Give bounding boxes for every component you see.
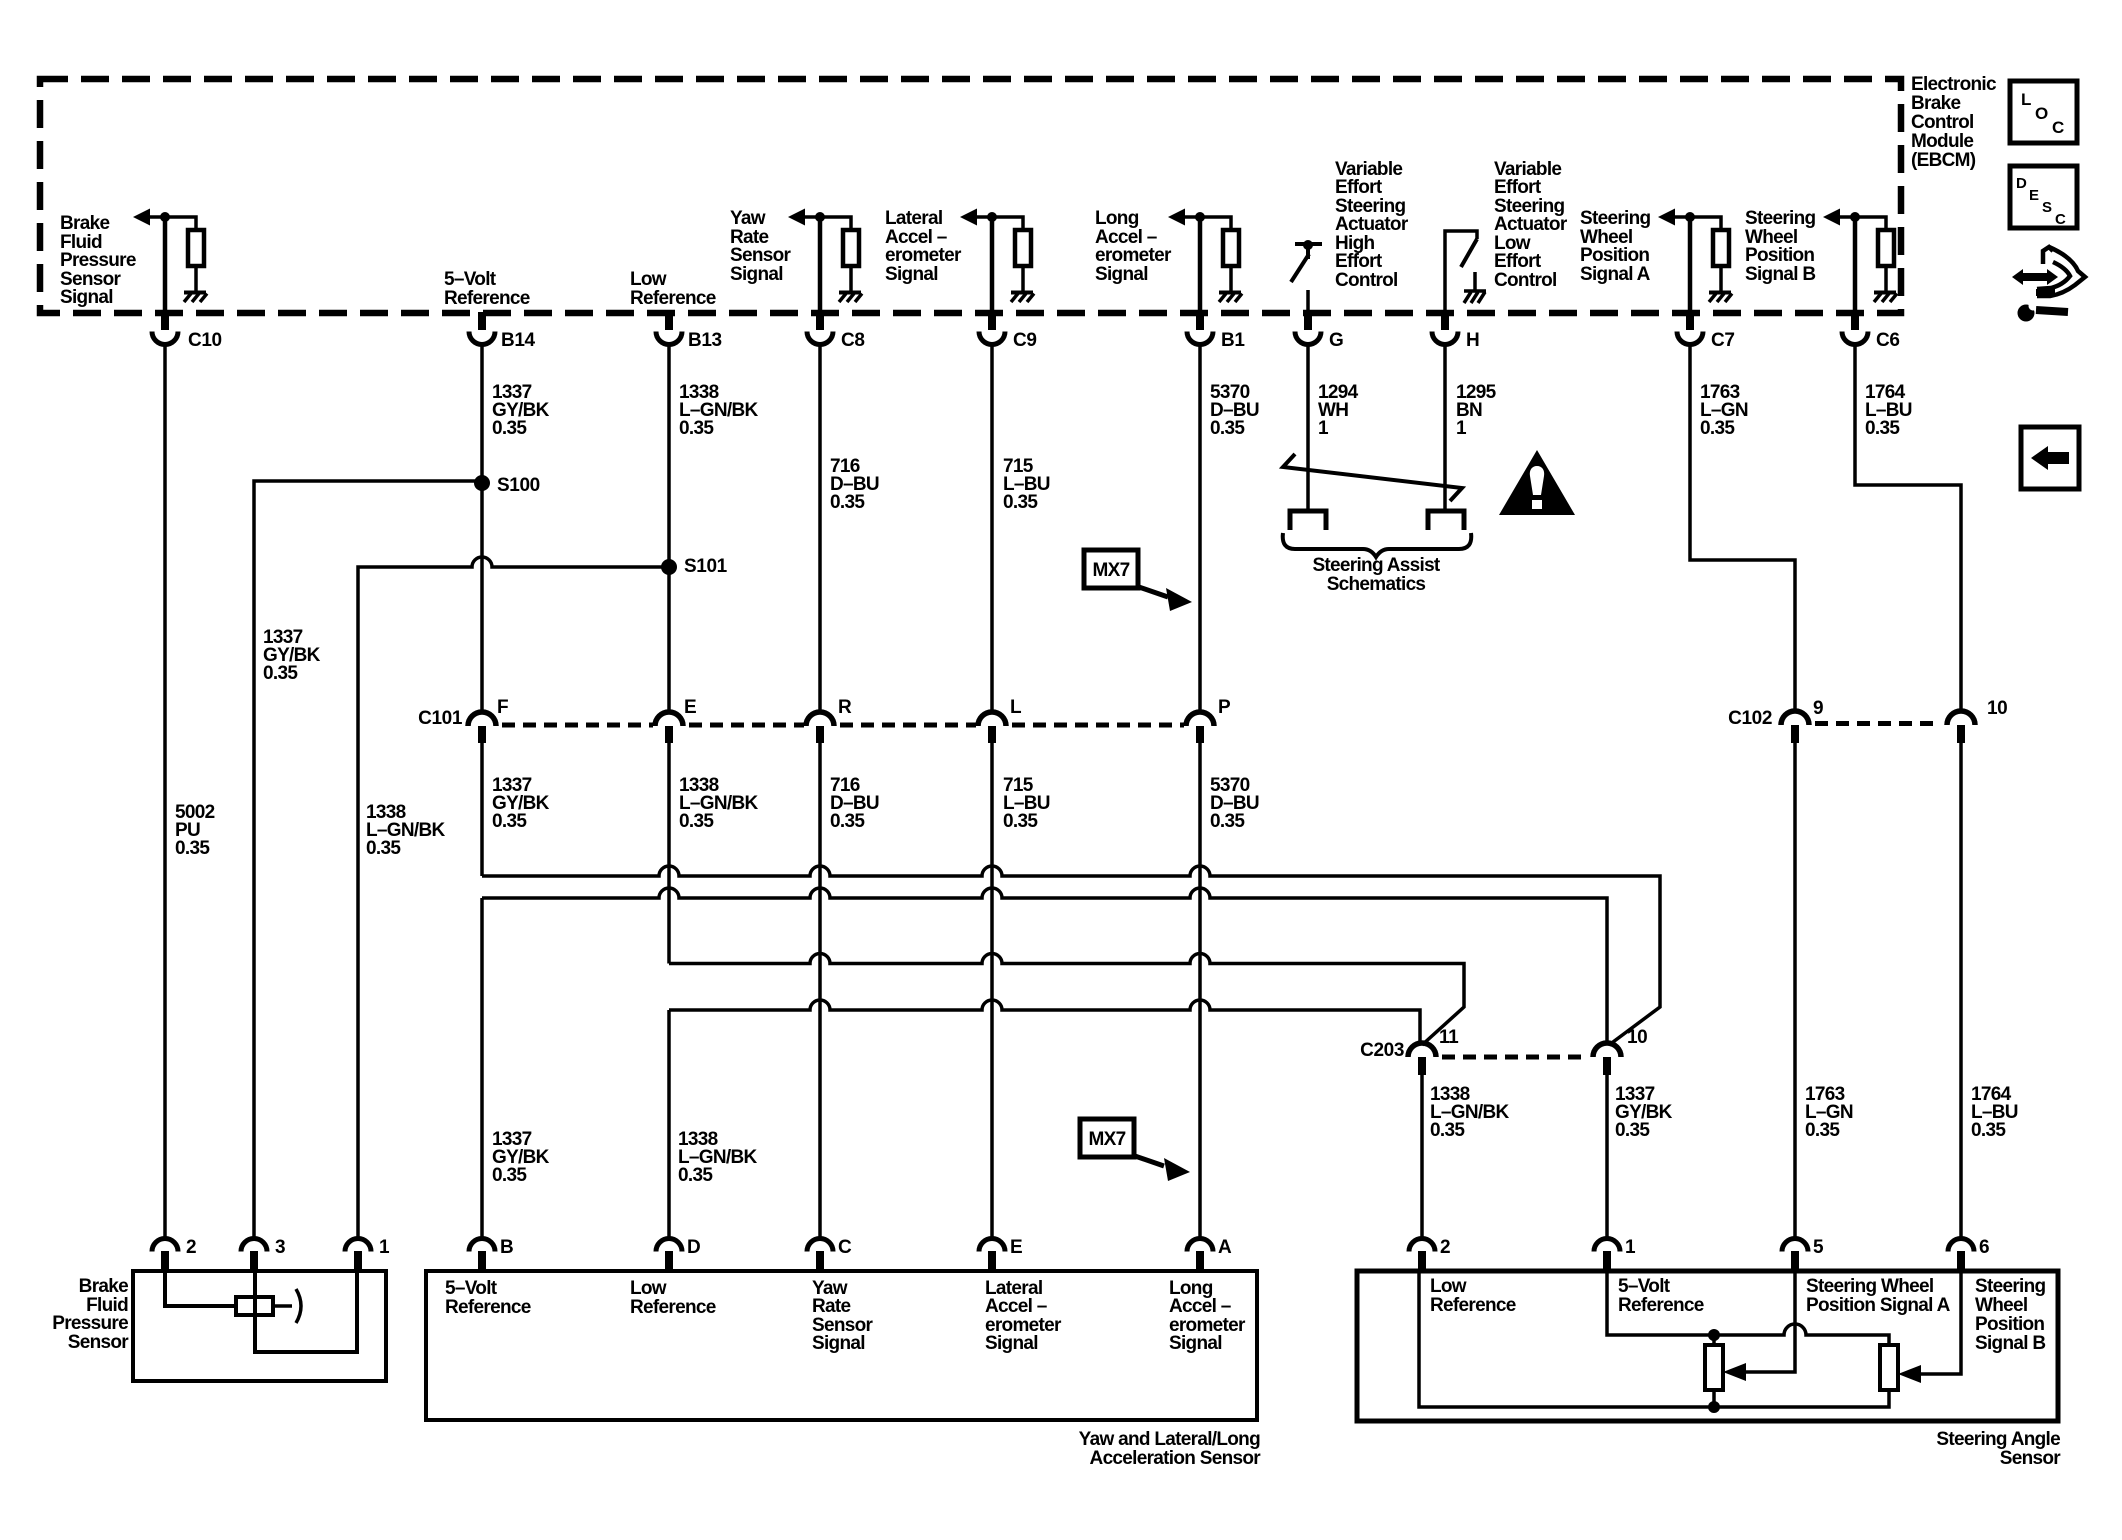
svg-text:0.35: 0.35 [830,811,865,832]
wire 1294 label [1318,382,1359,439]
Low Reference label in steering sensor [1430,1276,1516,1316]
wire 716 label [830,456,879,513]
lateral accelerometer signal circuit (arrow, resistor, ground) [960,209,1034,314]
wire 1337 from C203 pin 10 to steering angle sensor pin 1 [1605,1075,1609,1239]
yaw and lateral/long acceleration sensor box [426,1271,1257,1420]
svg-text:Wheel: Wheel [1975,1295,2027,1316]
svg-text:O: O [2035,104,2048,123]
svg-text:C8: C8 [841,330,865,351]
connector pin H at EBCM [1432,312,1479,351]
connector C101 pin P [1186,697,1231,743]
svg-text:0.35: 0.35 [679,811,714,832]
wire 1764 L-BU from C6 to C102 pin 10 [1855,345,1961,712]
5-Volt Reference label in yaw sensor [445,1278,531,1318]
svg-text:S: S [2042,199,2052,216]
wire 1337 label below C203 pin 10 [1615,1084,1673,1141]
connector C102 pin 10 [1947,698,2007,743]
svg-text:F: F [497,697,508,718]
wire 1338 L-GN/BK from B13 to C101 E [667,345,671,713]
connector pin C9 at EBCM [979,312,1037,351]
svg-text:Signal B: Signal B [1745,264,1815,285]
Low Reference label in yaw sensor [630,1278,716,1318]
potentiometer 1 feed stub [1712,1335,1716,1345]
svg-text:(EBCM): (EBCM) [1911,150,1976,171]
svg-text:0.35: 0.35 [1865,418,1900,439]
svg-text:Rate: Rate [812,1296,851,1317]
steering angle sensor box [1357,1271,2058,1421]
svg-text:0.35: 0.35 [1210,418,1245,439]
svg-text:Reference: Reference [445,1297,531,1318]
svg-text:Position Signal A: Position Signal A [1806,1295,1951,1316]
potentiometer 2 wiper arrow from pin 6 [1898,1271,1961,1383]
low reference bus to both potentiometer bottoms [1419,1271,1889,1407]
svg-text:0.35: 0.35 [1003,492,1038,513]
svg-text:11: 11 [1439,1027,1459,1048]
wire 715 label [1003,456,1050,513]
steering wheel position signal B circuit (arrow, resistor, ground) [1823,209,1897,314]
svg-text:Yaw and Lateral/Long: Yaw and Lateral/Long [1079,1429,1260,1450]
connector C203 pin 11 [1408,1027,1459,1075]
svg-text:S101: S101 [684,556,728,577]
svg-text:3: 3 [275,1237,285,1258]
yaw sensor pin C [807,1237,852,1270]
svg-text:C10: C10 [188,330,222,351]
svg-text:Signal A: Signal A [1580,264,1651,285]
svg-text:5–Volt: 5–Volt [1618,1276,1671,1297]
svg-text:A: A [1218,1237,1232,1258]
warning triangle [1499,450,1575,515]
svg-text:Actuator: Actuator [1494,214,1568,235]
connector pin C6 at EBCM [1842,312,1900,351]
svg-text:Accel –: Accel – [1169,1296,1231,1317]
svg-text:0.35: 0.35 [679,418,714,439]
connector C101 pin R [806,697,852,743]
svg-text:H: H [1466,330,1479,351]
svg-text:C102: C102 [1728,708,1772,729]
wire 5002 PU from C10 to brake sensor pin 2 [163,345,167,1240]
svg-text:1: 1 [1318,418,1329,439]
brake sensor internal wiring with sense resistor [165,1271,357,1352]
bus wire 1337 from yaw sensor pin B to C203 pin 10 (hops E,R,L,P wires) [482,888,1607,1239]
wire 715 from C101 L to yaw sensor pin E [990,743,994,1239]
svg-text:5: 5 [1813,1237,1824,1258]
svg-text:Effort: Effort [1335,251,1383,272]
wire 1337 label below C101 F [492,775,550,832]
svg-text:Module: Module [1911,131,1973,152]
brake fluid pressure sensor signal circuit (arrow, resistor R, ground) [133,209,207,314]
potentiometer 1 bottom stub [1712,1390,1716,1407]
svg-text:5–Volt: 5–Volt [445,1278,498,1299]
svg-text:9: 9 [1813,698,1823,719]
wire 1763 label below C7 [1700,382,1748,439]
svg-text:Electronic: Electronic [1911,74,1997,95]
yaw sensor pin A [1187,1237,1232,1270]
Steering Wheel Position Signal A label [1580,208,1651,285]
svg-text:Steering: Steering [1580,208,1651,229]
svg-text:0.35: 0.35 [1971,1120,2006,1141]
off-page terminal for wire 1294 [1290,511,1326,530]
svg-text:Low: Low [1430,1276,1467,1297]
adjustable-with-wrench legend icon [2012,247,2085,322]
Long Accelerometer Signal label in yaw sensor [1169,1278,1246,1354]
svg-text:10: 10 [1987,698,2007,719]
wire 1337 branch label [263,627,321,684]
wire 5370 from C101 P to yaw sensor pin A [1198,743,1202,1239]
steering angle sensor pin 1 [1594,1237,1636,1270]
svg-text:B13: B13 [688,330,722,351]
potentiometer 1 body [1705,1345,1723,1390]
svg-text:Position: Position [1580,245,1649,266]
svg-text:0.35: 0.35 [175,838,210,859]
svg-text:Sensor: Sensor [2000,1448,2062,1469]
svg-text:Steering Assist: Steering Assist [1312,555,1440,576]
wire 5370 D-BU from B1 to C101 P [1198,345,1202,713]
svg-text:Control: Control [1911,112,1974,133]
Steering Assist Schematics label [1312,555,1440,595]
EBCM module name label [1911,74,1997,171]
junction dot at potentiometer 1 bottom [1708,1401,1720,1413]
svg-text:Sensor: Sensor [68,1332,130,1353]
Brake Fluid Pressure Sensor Signal label [60,213,136,308]
svg-text:Signal: Signal [730,264,783,285]
svg-text:Control: Control [1335,270,1398,291]
wire 716 D-BU from C8 to C101 R [818,345,822,713]
connector C101 pin E [655,697,696,743]
svg-text:erometer: erometer [885,245,962,266]
svg-text:E: E [1010,1237,1022,1258]
wire 1295 BN from H to steering assist [1443,345,1447,511]
yaw sensor pin D [656,1237,700,1270]
svg-text:Low: Low [630,269,667,290]
svg-text:0.35: 0.35 [366,838,401,859]
wire 1338 branch from S101 to brake sensor pin 1 (hops B14 wire) [358,557,669,1239]
wire 1763 from C102 pin 9 to steering angle sensor pin 5 [1793,743,1797,1239]
yaw sensor pin B [469,1237,513,1270]
connector pin G at EBCM [1295,312,1343,351]
wire 715 label below C101 L [1003,775,1050,832]
svg-text:0.35: 0.35 [1003,811,1038,832]
C101 dashed connector line R-L [840,723,976,728]
svg-text:Reference: Reference [630,1297,716,1318]
svg-text:C6: C6 [1876,330,1900,351]
steering angle sensor caption [1936,1429,2061,1469]
wire 1294 WH from G to steering assist [1306,345,1310,511]
brake fluid pressure sensor pin 3 [241,1237,285,1270]
svg-text:C9: C9 [1013,330,1037,351]
svg-text:Accel –: Accel – [985,1296,1047,1317]
connector C101 pin F [468,697,508,743]
svg-text:C203: C203 [1360,1040,1404,1061]
wire 1764 label above steering sensor pin 6 [1971,1084,2018,1141]
svg-text:Brake: Brake [1911,93,1960,114]
MX7 callout upper [1084,550,1192,611]
yaw sensor caption [1079,1429,1262,1469]
steering angle sensor pin 6 [1948,1237,1989,1270]
svg-text:D: D [687,1237,700,1258]
wire 1338 label below C203 pin 11 [1430,1084,1509,1141]
svg-text:G: G [1329,330,1343,351]
wire 1764 from C102 pin 10 to steering angle sensor pin 6 [1959,743,1963,1239]
connector pin B14 at EBCM [469,312,535,351]
wire 1338 label below C101 E [679,775,758,832]
C101 dashed connector line E-R [689,723,804,728]
bus wire 1337 from C101 F to C203 pin 10 (hops E,R,L,P wires) [482,866,1660,1045]
svg-text:Low: Low [630,1278,667,1299]
DESC legend box icon [2010,166,2077,228]
svg-text:Sensor: Sensor [730,245,792,266]
svg-text:B14: B14 [501,330,535,351]
svg-text:1: 1 [1625,1237,1636,1258]
steering angle sensor pin 2 [1409,1237,1450,1270]
yaw rate sensor signal circuit (arrow, resistor, ground) [788,209,862,314]
svg-text:Steering Wheel: Steering Wheel [1806,1276,1933,1297]
5-Volt Reference label in steering sensor [1618,1276,1704,1316]
splice S100 [474,475,540,496]
svg-text:0.35: 0.35 [492,1165,527,1186]
svg-text:Signal: Signal [1169,1333,1222,1354]
svg-text:Brake: Brake [60,213,109,234]
svg-text:0.35: 0.35 [1615,1120,1650,1141]
svg-text:Effort: Effort [1494,177,1542,198]
wire 1337 label below B14 [492,382,550,439]
svg-text:erometer: erometer [1095,245,1172,266]
C203 dashed connector line [1442,1055,1587,1060]
svg-text:Effort: Effort [1494,251,1542,272]
wire 1338 from C203 pin 11 to steering angle sensor pin 2 [1420,1075,1424,1239]
svg-text:Reference: Reference [444,288,530,309]
back-arrow legend box icon [2021,427,2079,489]
wire 1338 label below B13 [679,382,758,439]
wire 1338 label above yaw sensor pin D [678,1129,757,1186]
long accelerometer signal circuit (arrow, resistor, ground) [1168,209,1242,314]
svg-text:Steering: Steering [1975,1276,2046,1297]
svg-text:Signal: Signal [812,1333,865,1354]
wire 716 label below C101 R [830,775,879,832]
svg-text:Steering: Steering [1745,208,1816,229]
svg-text:Reference: Reference [1430,1295,1516,1316]
wire 715 L-BU from C9 to C101 L [990,345,994,713]
wire 1337 label above yaw sensor pin B [492,1129,550,1186]
svg-text:R: R [838,697,852,718]
svg-text:Yaw: Yaw [730,208,766,229]
junction dot at potentiometer 1 top [1708,1329,1720,1341]
svg-text:0.35: 0.35 [1805,1120,1840,1141]
brake fluid pressure sensor name label [52,1276,129,1353]
Low Reference label at B13 [630,269,716,309]
svg-text:0.35: 0.35 [830,492,865,513]
steering angle sensor pin 5 [1782,1237,1824,1270]
Steering Wheel Position Signal B label in steering sensor [1975,1276,2046,1354]
Variable Effort Steering Actuator Low Effort Control label [1494,159,1568,291]
wire 716 from C101 R to yaw sensor pin C [818,743,822,1239]
svg-text:C: C [838,1237,852,1258]
svg-text:Schematics: Schematics [1327,574,1426,595]
wire segment F to bus line 1 [480,743,484,876]
svg-text:Signal: Signal [60,287,113,308]
steering sensor internal wiring: 5V feed to both potentiometers (hops pin5 wire) [1607,1271,1889,1345]
wire 1337 branch from S100 to brake sensor pin 3 [254,481,482,1239]
EBCM module dashed boundary box [40,79,1901,313]
high effort control switch [1291,240,1322,313]
brake fluid pressure sensor box [133,1271,386,1381]
svg-text:C: C [2052,118,2064,137]
brake fluid pressure sensor pin 2 [152,1237,196,1270]
Lateral Accelerometer Signal label in yaw sensor [985,1278,1062,1354]
svg-text:10: 10 [1627,1027,1647,1048]
wire 5370 label below C101 P [1210,775,1259,832]
svg-text:Steering Angle: Steering Angle [1936,1429,2060,1450]
svg-text:E: E [2029,187,2039,204]
wire 1763 L-GN from C7 to C102 pin 9 [1690,345,1795,712]
svg-text:Position: Position [1745,245,1814,266]
svg-text:0.35: 0.35 [678,1165,713,1186]
Variable Effort Steering Actuator High Effort Control label [1335,159,1409,291]
wire 1295 label [1456,382,1497,439]
steering wheel position signal A circuit (arrow, resistor, ground) [1658,209,1732,314]
svg-text:0.35: 0.35 [263,663,298,684]
svg-text:Reference: Reference [1618,1295,1704,1316]
bus wire 1338 from C101 E to C203 pin 11 (hops R,L,P wires) [669,954,1464,1046]
bus wire 1338 from yaw sensor pin D to C203 pin 11 (hops R,L,P wires) [669,1000,1420,1239]
svg-text:0.35: 0.35 [1210,811,1245,832]
svg-text:L: L [2021,90,2031,109]
svg-text:0.35: 0.35 [1700,418,1735,439]
svg-text:0.35: 0.35 [492,418,527,439]
svg-text:E: E [684,697,696,718]
potentiometer 1 wiper arrow from pin 5 [1723,1271,1795,1381]
C102 dashed connector line [1815,721,1941,726]
connector C101 pin L [978,697,1022,743]
ganged-switch link symbol across G and H wires [1283,454,1462,501]
splice S101 [661,556,728,577]
yaw sensor pin E [979,1237,1022,1270]
svg-text:C101: C101 [418,708,463,729]
Yaw Rate Sensor Signal label in yaw sensor [812,1278,874,1354]
Lateral Accelerometer Signal label [885,208,962,285]
svg-text:Position: Position [1975,1314,2044,1335]
svg-text:Signal B: Signal B [1975,1333,2045,1354]
5-Volt Reference label at B14 [444,269,530,309]
potentiometer 2 body [1880,1345,1898,1390]
connector C102 pin 9 [1781,698,1823,743]
svg-text:Actuator: Actuator [1335,214,1409,235]
Steering Wheel Position Signal A label in steering sensor [1806,1276,1951,1316]
wire 1337 GY/BK from B14 to C101 F [480,345,484,713]
connector pin C10 at EBCM [152,312,222,351]
svg-text:1: 1 [379,1237,390,1258]
svg-text:Signal: Signal [885,264,938,285]
svg-text:Acceleration Sensor: Acceleration Sensor [1090,1448,1262,1469]
connector C203 pin 10 [1593,1027,1647,1075]
wire 1764 label below C6 [1865,382,1912,439]
Long Accelerometer Signal label [1095,208,1172,285]
svg-text:Pressure: Pressure [52,1313,128,1334]
svg-text:L: L [1010,697,1022,718]
MX7 callout lower [1080,1119,1190,1181]
svg-text:5–Volt: 5–Volt [444,269,497,290]
svg-text:MX7: MX7 [1093,560,1130,581]
svg-text:D: D [2016,175,2027,192]
svg-text:B: B [500,1237,513,1258]
svg-text:C: C [2055,211,2066,228]
svg-text:2: 2 [186,1237,196,1258]
wire 5370 label [1210,382,1259,439]
connector pin C7 at EBCM [1677,312,1735,351]
brake fluid pressure sensor pin 1 [345,1237,390,1270]
svg-text:Lateral: Lateral [885,208,942,229]
svg-text:B1: B1 [1221,330,1245,351]
svg-text:MX7: MX7 [1089,1129,1126,1150]
C101 dashed connector line L-P [1012,723,1184,728]
connector pin B13 at EBCM [656,312,722,351]
off-page terminal for wire 1295 [1428,511,1464,530]
Yaw Rate Sensor Signal label [730,208,792,285]
low effort control switch with ground [1445,231,1486,313]
svg-text:0.35: 0.35 [1430,1120,1465,1141]
svg-text:Reference: Reference [630,288,716,309]
connector pin C8 at EBCM [807,312,865,351]
connector pin B1 at EBCM [1187,312,1245,351]
svg-text:Pressure: Pressure [60,250,136,271]
svg-text:Signal: Signal [985,1333,1038,1354]
svg-text:Effort: Effort [1335,177,1383,198]
svg-text:1: 1 [1456,418,1467,439]
svg-text:2: 2 [1440,1237,1450,1258]
svg-text:Long: Long [1095,208,1139,229]
svg-text:Brake: Brake [79,1276,128,1297]
wire segment E to bus line 3 [667,743,671,964]
svg-text:S100: S100 [497,475,540,496]
svg-text:Signal: Signal [1095,264,1148,285]
wire 1338 branch label [366,802,445,859]
wire 5002 PU label [175,802,215,859]
brace under steering assist terminals [1283,533,1472,557]
svg-text:0.35: 0.35 [492,811,527,832]
svg-text:6: 6 [1979,1237,1989,1258]
LOC legend box icon [2010,81,2077,143]
svg-text:Control: Control [1494,270,1557,291]
Steering Wheel Position Signal B label [1745,208,1816,285]
wire 1763 label above steering sensor pin 5 [1805,1084,1853,1141]
svg-text:C7: C7 [1711,330,1735,351]
C101 dashed connector line F-E [502,723,653,728]
svg-text:P: P [1218,697,1231,718]
